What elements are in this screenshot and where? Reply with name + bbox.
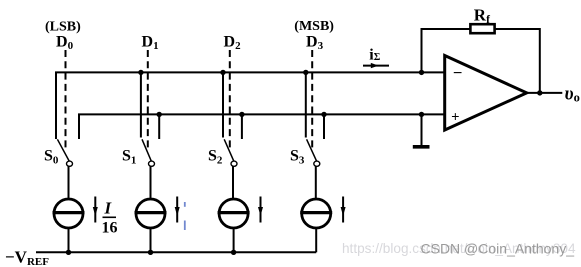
wire S1 to current source [150, 166, 152, 199]
feedback wire [422, 29, 540, 93]
switch S2 contact [231, 161, 237, 166]
wire CS1 to bottom rail [150, 228, 152, 252]
ground wire from non-inverting node [421, 114, 423, 145]
summing bus tap wire S2 [222, 72, 224, 137]
node: ground wire / ground bus [419, 112, 424, 117]
current source CS1 [135, 199, 167, 228]
current arrow CS1 [175, 197, 180, 223]
current source CS3 [300, 199, 332, 228]
switch S2 lever [224, 139, 234, 161]
summing bus wire (to inverting input) [56, 72, 445, 139]
switch S1 lever [142, 139, 152, 161]
node: ground bus / S1 tap [157, 112, 162, 117]
svg-text:(LSB): (LSB) [45, 20, 81, 35]
current arrow CS2 [258, 197, 263, 223]
bit line D1 dashed wire [147, 50, 149, 150]
current source CS0 [53, 199, 85, 228]
switch S3 lever [307, 139, 317, 161]
node: feedback / summing bus [419, 70, 424, 75]
current source CS2 [218, 199, 250, 228]
node: summing bus / S3 tap [303, 70, 308, 75]
switch S3 contact [314, 161, 320, 166]
svg-text:(MSB): (MSB) [294, 19, 334, 34]
ground bus tap wire S2 [241, 114, 243, 139]
bit line D3 dashed wire [311, 50, 313, 150]
bit line D0 dashed wire [65, 50, 67, 150]
ground bus tap wire S1 [158, 114, 160, 139]
node: ground bus / S2 tap [239, 112, 244, 117]
svg-text:16: 16 [102, 220, 118, 237]
resistor Rf [470, 24, 494, 33]
wire CS0 to bottom rail [68, 228, 70, 252]
ground bus tap wire S3 [323, 114, 325, 139]
wire S2 to current source [232, 166, 234, 199]
summing bus tap wire S1 [140, 72, 142, 137]
svg-text:−: − [453, 65, 462, 82]
node: summing bus / S2 tap [220, 70, 225, 75]
ground bus wire (to non-inverting input) [79, 114, 445, 139]
wire CS3 to bottom rail [315, 228, 317, 252]
svg-text:+: + [451, 108, 459, 124]
node: summing bus / S1 tap [138, 70, 143, 75]
output wire [527, 92, 563, 94]
label I/16 [102, 199, 118, 237]
current arrow CS3 [341, 197, 346, 223]
node: CS2 / rail [231, 250, 236, 255]
bit line D2 dashed wire [229, 50, 231, 150]
switch S1 contact [149, 161, 155, 166]
ellipsis dashes (continuing values) [184, 202, 186, 230]
switch S0 lever [57, 139, 69, 161]
op-amp U1 [445, 56, 527, 131]
bottom rail wire (-VREF) [36, 251, 316, 253]
svg-text:CSDN @Coin_Anthony_: CSDN @Coin_Anthony_ [421, 240, 575, 256]
node: output / feedback [537, 90, 542, 95]
wire CS2 to bottom rail [233, 228, 235, 252]
node: ground bus / S3 tap [321, 112, 326, 117]
summing bus tap wire S3 [305, 72, 307, 137]
node: CS0 / rail [66, 250, 71, 255]
switch S0 contact [67, 161, 73, 166]
current arrow i_sigma [363, 63, 389, 68]
watermark [342, 240, 576, 256]
node: CS1 / rail [148, 250, 153, 255]
wire S3 to current source [315, 166, 317, 199]
ground [413, 145, 430, 149]
current arrow I/16 [93, 197, 98, 223]
wire S0 to current source [68, 166, 70, 199]
